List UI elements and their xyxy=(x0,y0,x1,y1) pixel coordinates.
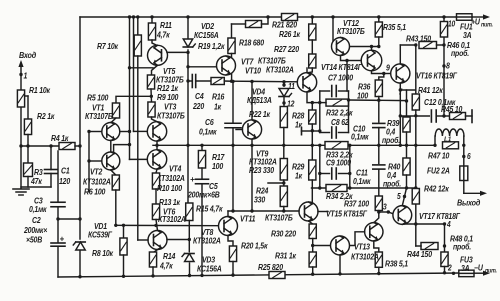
node 3 xyxy=(378,211,380,213)
wire col A xyxy=(129,17,131,159)
svg-text:Вход: Вход xyxy=(19,50,36,60)
wire VT12-R35 xyxy=(351,46,379,48)
wire R23-R24 xyxy=(283,180,285,186)
resistor R33 trimmer xyxy=(325,142,348,150)
wire R12-R9 xyxy=(150,89,153,102)
svg-text:R30 220: R30 220 xyxy=(271,229,297,239)
svg-text:КТ3102А: КТ3102А xyxy=(193,236,221,246)
diode VD2 xyxy=(183,39,193,47)
wire VT10 top to C7 xyxy=(306,68,308,73)
svg-text:0,1мк: 0,1мк xyxy=(199,127,218,137)
fuse FU2 xyxy=(460,166,468,181)
resistor R14 xyxy=(149,252,156,267)
wire VT8-R20 xyxy=(228,236,233,247)
svg-text:R21 820: R21 820 xyxy=(272,20,298,30)
svg-text:R31 1к: R31 1к xyxy=(275,251,297,261)
svg-text:0,1мк: 0,1мк xyxy=(351,132,370,142)
wire y146 to R4 xyxy=(21,145,59,147)
wire R32 left xyxy=(312,102,326,104)
svg-text:КТ3107Б: КТ3107Б xyxy=(265,213,293,223)
node 1 xyxy=(19,73,22,76)
wire R15-VD3 xyxy=(188,221,190,252)
wire R22 down xyxy=(283,128,285,146)
svg-text:проб.: проб. xyxy=(383,179,401,189)
svg-text:КС156А: КС156А xyxy=(197,264,222,274)
wire R6 down xyxy=(115,190,117,225)
resistor R37 xyxy=(375,196,382,211)
resistor R38 xyxy=(375,252,382,267)
capacitor C1 xyxy=(50,146,52,170)
resistor R46 xyxy=(443,17,445,22)
svg-text:+U: +U xyxy=(471,17,480,27)
wire col153 top xyxy=(151,17,153,23)
wire VT3-VT4 xyxy=(156,141,158,150)
resistor R16 xyxy=(196,80,211,82)
wire C9 left col xyxy=(319,145,321,188)
svg-text:1: 1 xyxy=(24,71,28,81)
wire VT6 base stub xyxy=(138,239,148,241)
transistor VT13 xyxy=(331,236,350,255)
transistor VT15 xyxy=(365,223,383,241)
wire VT17 collector xyxy=(405,223,445,225)
wire left feedback column x80 xyxy=(79,17,81,239)
wire +U tail xyxy=(472,16,485,18)
resistor R31 xyxy=(309,252,316,267)
svg-text:R5 100: R5 100 xyxy=(87,93,109,103)
resistor R30 xyxy=(309,224,316,239)
wire VT4-R10 xyxy=(156,169,157,173)
svg-text:R32 2,2к: R32 2,2к xyxy=(326,108,354,118)
wire C2 link xyxy=(56,217,59,220)
wire VT6 collector xyxy=(167,239,189,241)
svg-text:R41 12к: R41 12к xyxy=(418,85,444,95)
wire VD2 down xyxy=(187,50,189,203)
resistor R32 xyxy=(326,99,349,106)
node 12 xyxy=(283,97,285,106)
resistor R40 xyxy=(406,145,408,158)
wire R28 down xyxy=(311,124,313,145)
svg-text:C4: C4 xyxy=(195,91,204,101)
resistor R7 xyxy=(137,17,139,35)
resistor R1 xyxy=(17,90,24,107)
resistor R19 xyxy=(231,24,233,38)
terminal stub xyxy=(301,128,303,135)
svg-text:R11: R11 xyxy=(160,20,172,30)
wire C4 left xyxy=(188,80,192,82)
svg-text:R23 330: R23 330 xyxy=(249,165,275,175)
resistor R4 xyxy=(59,143,75,150)
svg-text:4,7к: 4,7к xyxy=(156,30,171,40)
wire R31 rail xyxy=(312,267,314,274)
node 4 xyxy=(443,222,446,225)
resistor R12 xyxy=(147,75,154,89)
svg-text:R18 680: R18 680 xyxy=(239,38,265,48)
svg-text:R26 1к: R26 1к xyxy=(279,29,301,39)
svg-text:−U: −U xyxy=(474,263,483,273)
junction VD1 rail xyxy=(78,275,81,278)
wire VT6-R14 xyxy=(154,250,158,253)
capacitor C3 xyxy=(57,151,59,202)
svg-text:VT17 КТ818Г: VT17 КТ818Г xyxy=(419,211,460,221)
transistor VT17 xyxy=(393,206,412,225)
wire R3 gnd xyxy=(27,177,29,188)
wire VD3 rail xyxy=(189,263,191,276)
svg-text:VT4: VT4 xyxy=(169,164,182,174)
resistor R25 xyxy=(269,272,285,279)
transistor VT4 xyxy=(147,150,166,169)
svg-text:R44 150: R44 150 xyxy=(407,249,433,259)
svg-text:КС539Г: КС539Г xyxy=(88,230,112,240)
svg-text:R8 10к: R8 10к xyxy=(92,248,114,258)
resistor R41 xyxy=(415,45,417,94)
svg-text:4,7к: 4,7к xyxy=(159,261,174,271)
wire bus y188 xyxy=(312,187,416,189)
svg-text:R45 10: R45 10 xyxy=(441,104,463,114)
wire R30-R31 xyxy=(312,239,314,253)
node 11 xyxy=(282,83,285,86)
svg-text:10: 10 xyxy=(448,19,455,29)
wire R8 top xyxy=(123,225,125,238)
transistor VT3 xyxy=(147,122,166,141)
transistor VT12 xyxy=(332,38,350,56)
transistor VT11 xyxy=(299,202,318,221)
resistor R44 trimmer xyxy=(421,243,438,250)
transistor VT10 xyxy=(297,73,316,92)
resistor R3 xyxy=(24,163,33,177)
wire R41 down xyxy=(415,110,417,188)
svg-text:R2 1к: R2 1к xyxy=(37,111,55,121)
svg-text:VT14 КТ814Г: VT14 КТ814Г xyxy=(321,62,362,72)
resistor R23 trimmer xyxy=(283,145,285,158)
transistor VT7 xyxy=(217,56,236,75)
wire R27-VT10 xyxy=(307,68,312,73)
svg-text:VT10: VT10 xyxy=(245,66,262,76)
resistor R27 xyxy=(309,54,316,68)
wire VT7 base xyxy=(188,66,220,68)
capacitor C9 xyxy=(320,173,330,175)
wire VT2 base xyxy=(89,160,102,162)
svg-text:VT16 КТ819Г: VT16 КТ819Г xyxy=(416,71,457,81)
resistor R36 xyxy=(375,80,382,97)
wire VT1 collector xyxy=(120,131,130,133)
wire R9-VT3 xyxy=(152,117,158,122)
svg-text:R1 10к: R1 10к xyxy=(29,85,51,95)
svg-text:3А: 3А xyxy=(463,30,471,40)
wire node7-R41 xyxy=(400,89,416,91)
wire VT1 base xyxy=(89,131,102,133)
resistor R2 xyxy=(24,119,31,135)
svg-text:R4 1к: R4 1к xyxy=(51,133,69,143)
wire VT12 base col xyxy=(332,17,334,47)
resistor R21 xyxy=(282,14,298,21)
node 7 xyxy=(399,83,401,116)
wire -U tail xyxy=(474,272,485,274)
capacitor C12 xyxy=(430,110,432,122)
wire VT5 base xyxy=(167,51,188,53)
transistor VT1 xyxy=(111,118,116,123)
svg-text:R16: R16 xyxy=(212,92,225,102)
wire R29-VT11 xyxy=(311,180,313,202)
svg-text:КТ3102А: КТ3102А xyxy=(157,173,185,183)
resistor R11 xyxy=(148,23,155,40)
svg-text:КТ3107Б: КТ3107Б xyxy=(85,111,113,121)
svg-text:Выход: Выход xyxy=(457,198,480,208)
inductor L1 xyxy=(434,136,436,145)
svg-text:R7 10к: R7 10к xyxy=(97,41,119,51)
resistor R10 xyxy=(152,173,159,189)
wire mid bus y145 xyxy=(153,144,435,146)
svg-text:пит.: пит. xyxy=(485,268,497,274)
wire col A tap xyxy=(128,66,131,69)
node 5 xyxy=(403,195,406,198)
wire R42 col xyxy=(415,188,417,246)
svg-text:R27 220: R27 220 xyxy=(274,44,300,54)
diode VD4 xyxy=(283,82,285,86)
wire VT15 top xyxy=(374,212,379,223)
resistor R8 xyxy=(120,238,127,255)
node 2 xyxy=(452,272,455,275)
wire VD2 col xyxy=(187,17,189,38)
wire col B xyxy=(133,17,135,131)
svg-text:200мк×6В: 200мк×6В xyxy=(187,190,220,200)
svg-text:R6 100: R6 100 xyxy=(84,187,106,197)
node input terminal xyxy=(20,64,22,75)
wire R38 rail xyxy=(378,267,380,273)
svg-text:R20 1,5к: R20 1,5к xyxy=(241,241,269,251)
resistor R26 xyxy=(309,24,316,40)
wire col445 xyxy=(444,224,446,252)
svg-text:C1: C1 xyxy=(61,166,69,176)
svg-text:R47 10: R47 10 xyxy=(428,151,450,161)
wire node5 xyxy=(402,188,406,206)
wire to VT16 base xyxy=(384,73,392,75)
svg-text:R43 150: R43 150 xyxy=(406,34,432,44)
svg-text:330: 330 xyxy=(254,195,266,205)
resistor R6 xyxy=(111,170,116,175)
svg-text:R19 1,2к: R19 1,2к xyxy=(198,41,226,51)
resistor R47 xyxy=(443,142,459,149)
resistor R15 xyxy=(186,203,193,221)
svg-text:КТ3107Б: КТ3107Б xyxy=(157,111,185,121)
capacitor C8 xyxy=(320,132,330,134)
svg-text:КТ3102А: КТ3102А xyxy=(83,177,111,187)
capacitor C7 xyxy=(320,90,330,92)
wire R18 ends xyxy=(232,23,246,25)
resistor R39 xyxy=(406,90,408,117)
svg-text:R37 100: R37 100 xyxy=(344,199,370,209)
resistor R34 xyxy=(326,185,347,192)
svg-text:4: 4 xyxy=(446,219,451,229)
wire VT12 collector xyxy=(341,56,348,61)
wire VT15 base xyxy=(350,232,365,246)
wire col312 top xyxy=(311,17,313,24)
node 6 xyxy=(463,145,465,166)
resistor R18 xyxy=(246,21,262,28)
svg-text:C9 1000: C9 1000 xyxy=(326,158,352,168)
svg-text:R35 5,1: R35 5,1 xyxy=(383,22,406,32)
node 8 xyxy=(442,64,445,67)
wire R8 rail xyxy=(123,255,125,276)
wire VT9 base stub xyxy=(236,129,242,131)
wire VT16 collector xyxy=(399,45,401,64)
wire R11-VT5 xyxy=(152,40,158,46)
wire VT7 emitter xyxy=(231,74,233,81)
diode VD3 xyxy=(185,254,195,262)
resistor R20 xyxy=(229,246,236,262)
svg-text:FU2 2А: FU2 2А xyxy=(427,166,450,176)
wire VT15-R38 xyxy=(374,241,379,252)
resistor R43 trimmer xyxy=(419,42,437,49)
wire block left col xyxy=(319,91,321,133)
svg-text:C7 1000: C7 1000 xyxy=(328,73,354,83)
svg-text:проб.: проб. xyxy=(382,135,400,145)
svg-text:R38 5,1: R38 5,1 xyxy=(385,259,408,269)
svg-text:КТ3102А: КТ3102А xyxy=(158,214,186,224)
transistor VT2 xyxy=(102,152,120,170)
svg-text:VT2: VT2 xyxy=(90,167,103,177)
svg-text:VT15 КТ815Г: VT15 КТ815Г xyxy=(326,209,367,219)
wire R24 down xyxy=(283,207,285,212)
svg-text:проб.: проб. xyxy=(451,48,469,58)
resistor R22 xyxy=(280,107,287,128)
svg-text:VT11: VT11 xyxy=(240,214,255,224)
transistor VT8 xyxy=(219,217,238,236)
svg-text:200мк×: 200мк× xyxy=(23,225,48,235)
transistor VT6 xyxy=(148,231,167,250)
resistor R13 xyxy=(152,204,159,220)
wire R13-VT6 xyxy=(156,220,158,231)
wire base column x89 xyxy=(88,132,90,193)
node 9 xyxy=(372,71,384,74)
wire VT4 base link xyxy=(130,158,148,160)
svg-text:+: + xyxy=(190,175,195,184)
wire R1 tap xyxy=(25,95,28,97)
svg-text:×50В: ×50В xyxy=(26,235,43,245)
wire VT14 base xyxy=(347,60,361,62)
transistor VT16 xyxy=(391,64,410,83)
svg-text:пит.: пит. xyxy=(481,22,493,28)
svg-text:3: 3 xyxy=(383,202,387,212)
wire R5 top xyxy=(116,96,151,103)
resistor R5 xyxy=(112,103,119,118)
svg-text:R22 1к: R22 1к xyxy=(249,109,271,119)
resistor R35 xyxy=(378,17,380,22)
svg-text:КТ3102А: КТ3102А xyxy=(266,65,294,75)
svg-text:R15 4,7к: R15 4,7к xyxy=(196,204,224,214)
svg-text:47к: 47к xyxy=(30,176,43,186)
resistor R17 xyxy=(201,145,203,150)
svg-text:R10 100: R10 100 xyxy=(157,183,183,193)
wire output arrow xyxy=(463,181,465,194)
wire R10-R13 xyxy=(155,189,157,204)
svg-text:0,1мк: 0,1мк xyxy=(353,176,372,186)
svg-text:КТ3107Б: КТ3107Б xyxy=(337,26,365,36)
svg-text:КТ3102А: КТ3102А xyxy=(351,252,379,262)
svg-text:+: + xyxy=(60,235,65,244)
svg-text:VT13: VT13 xyxy=(354,242,371,252)
wire top supply rail xyxy=(80,16,457,18)
wire VT11 stub xyxy=(318,211,328,213)
svg-text:220: 220 xyxy=(192,101,205,111)
wire col444 xyxy=(443,37,445,116)
transistor VT5 xyxy=(148,45,168,65)
resistor R28 xyxy=(311,103,313,110)
wire to VT13 base xyxy=(313,245,331,247)
svg-text:R13 1к: R13 1к xyxy=(159,197,181,207)
svg-text:R25 820: R25 820 xyxy=(258,263,284,273)
svg-text:100: 100 xyxy=(357,91,369,101)
wire VT8 collector bus xyxy=(227,211,229,217)
wire VT5-R12 xyxy=(152,65,158,75)
wire VT1-VT2 xyxy=(110,141,112,153)
wire R2-R3 xyxy=(27,135,29,164)
wire R48 rail xyxy=(444,267,446,273)
transistor VT9 xyxy=(251,82,253,120)
resistor R45 xyxy=(450,113,466,120)
svg-text:R9 100: R9 100 xyxy=(157,92,179,102)
wire emitter to L1 bus xyxy=(399,116,401,145)
wire ground bus xyxy=(21,186,51,188)
svg-text:КС156А: КС156А xyxy=(194,30,219,40)
wire R44 left xyxy=(416,245,421,247)
svg-text:C2: C2 xyxy=(32,215,41,225)
resistor R42 xyxy=(412,189,419,205)
wire output bus y116 xyxy=(400,115,429,117)
diode VD1 xyxy=(76,242,86,250)
wire VT13 emitter xyxy=(339,255,341,274)
ground xyxy=(13,188,29,190)
svg-text:R14: R14 xyxy=(163,251,176,261)
resistor R24 xyxy=(280,186,287,207)
junction L1 xyxy=(433,144,436,147)
svg-text:0,1мк: 0,1мк xyxy=(29,204,48,214)
resistor R48 xyxy=(441,252,448,267)
wire VT2 collector xyxy=(114,145,130,153)
svg-text:проб.: проб. xyxy=(453,242,471,252)
wire R45 out xyxy=(466,115,473,117)
wire VT10 emitter xyxy=(307,92,312,103)
capacitor C11 xyxy=(378,145,380,163)
transistor VT14 xyxy=(371,47,373,51)
wire bottom supply rail xyxy=(58,273,459,277)
wire input column xyxy=(20,75,22,91)
svg-text:R42 12к: R42 12к xyxy=(424,184,450,194)
svg-text:C8 62: C8 62 xyxy=(331,117,349,127)
svg-text:100: 100 xyxy=(212,161,224,171)
wire C8 tap xyxy=(312,130,320,132)
wire R36 link xyxy=(349,99,407,102)
svg-text:2: 2 xyxy=(447,263,452,273)
svg-text:КД513А: КД513А xyxy=(247,95,272,105)
svg-text:12: 12 xyxy=(287,99,295,109)
wire mirror bus y225 xyxy=(116,224,219,226)
svg-text:C6: C6 xyxy=(205,117,214,127)
wire VT11-R30 xyxy=(309,221,313,224)
capacitor C4 xyxy=(191,75,193,88)
wire node9-R36 xyxy=(379,74,384,81)
svg-text:3А: 3А xyxy=(461,263,469,273)
wire R43-node8 xyxy=(437,44,445,46)
fuse FU1 xyxy=(457,14,473,21)
capacitor C5 xyxy=(201,168,203,179)
svg-text:120: 120 xyxy=(59,176,71,186)
fuse FU3 xyxy=(459,270,474,277)
resistor R9 xyxy=(148,102,155,117)
wire block right col xyxy=(348,91,350,133)
wire R36 bottom xyxy=(378,97,380,101)
capacitor C10 xyxy=(378,100,380,122)
wire node3-VT17 base xyxy=(388,212,393,214)
